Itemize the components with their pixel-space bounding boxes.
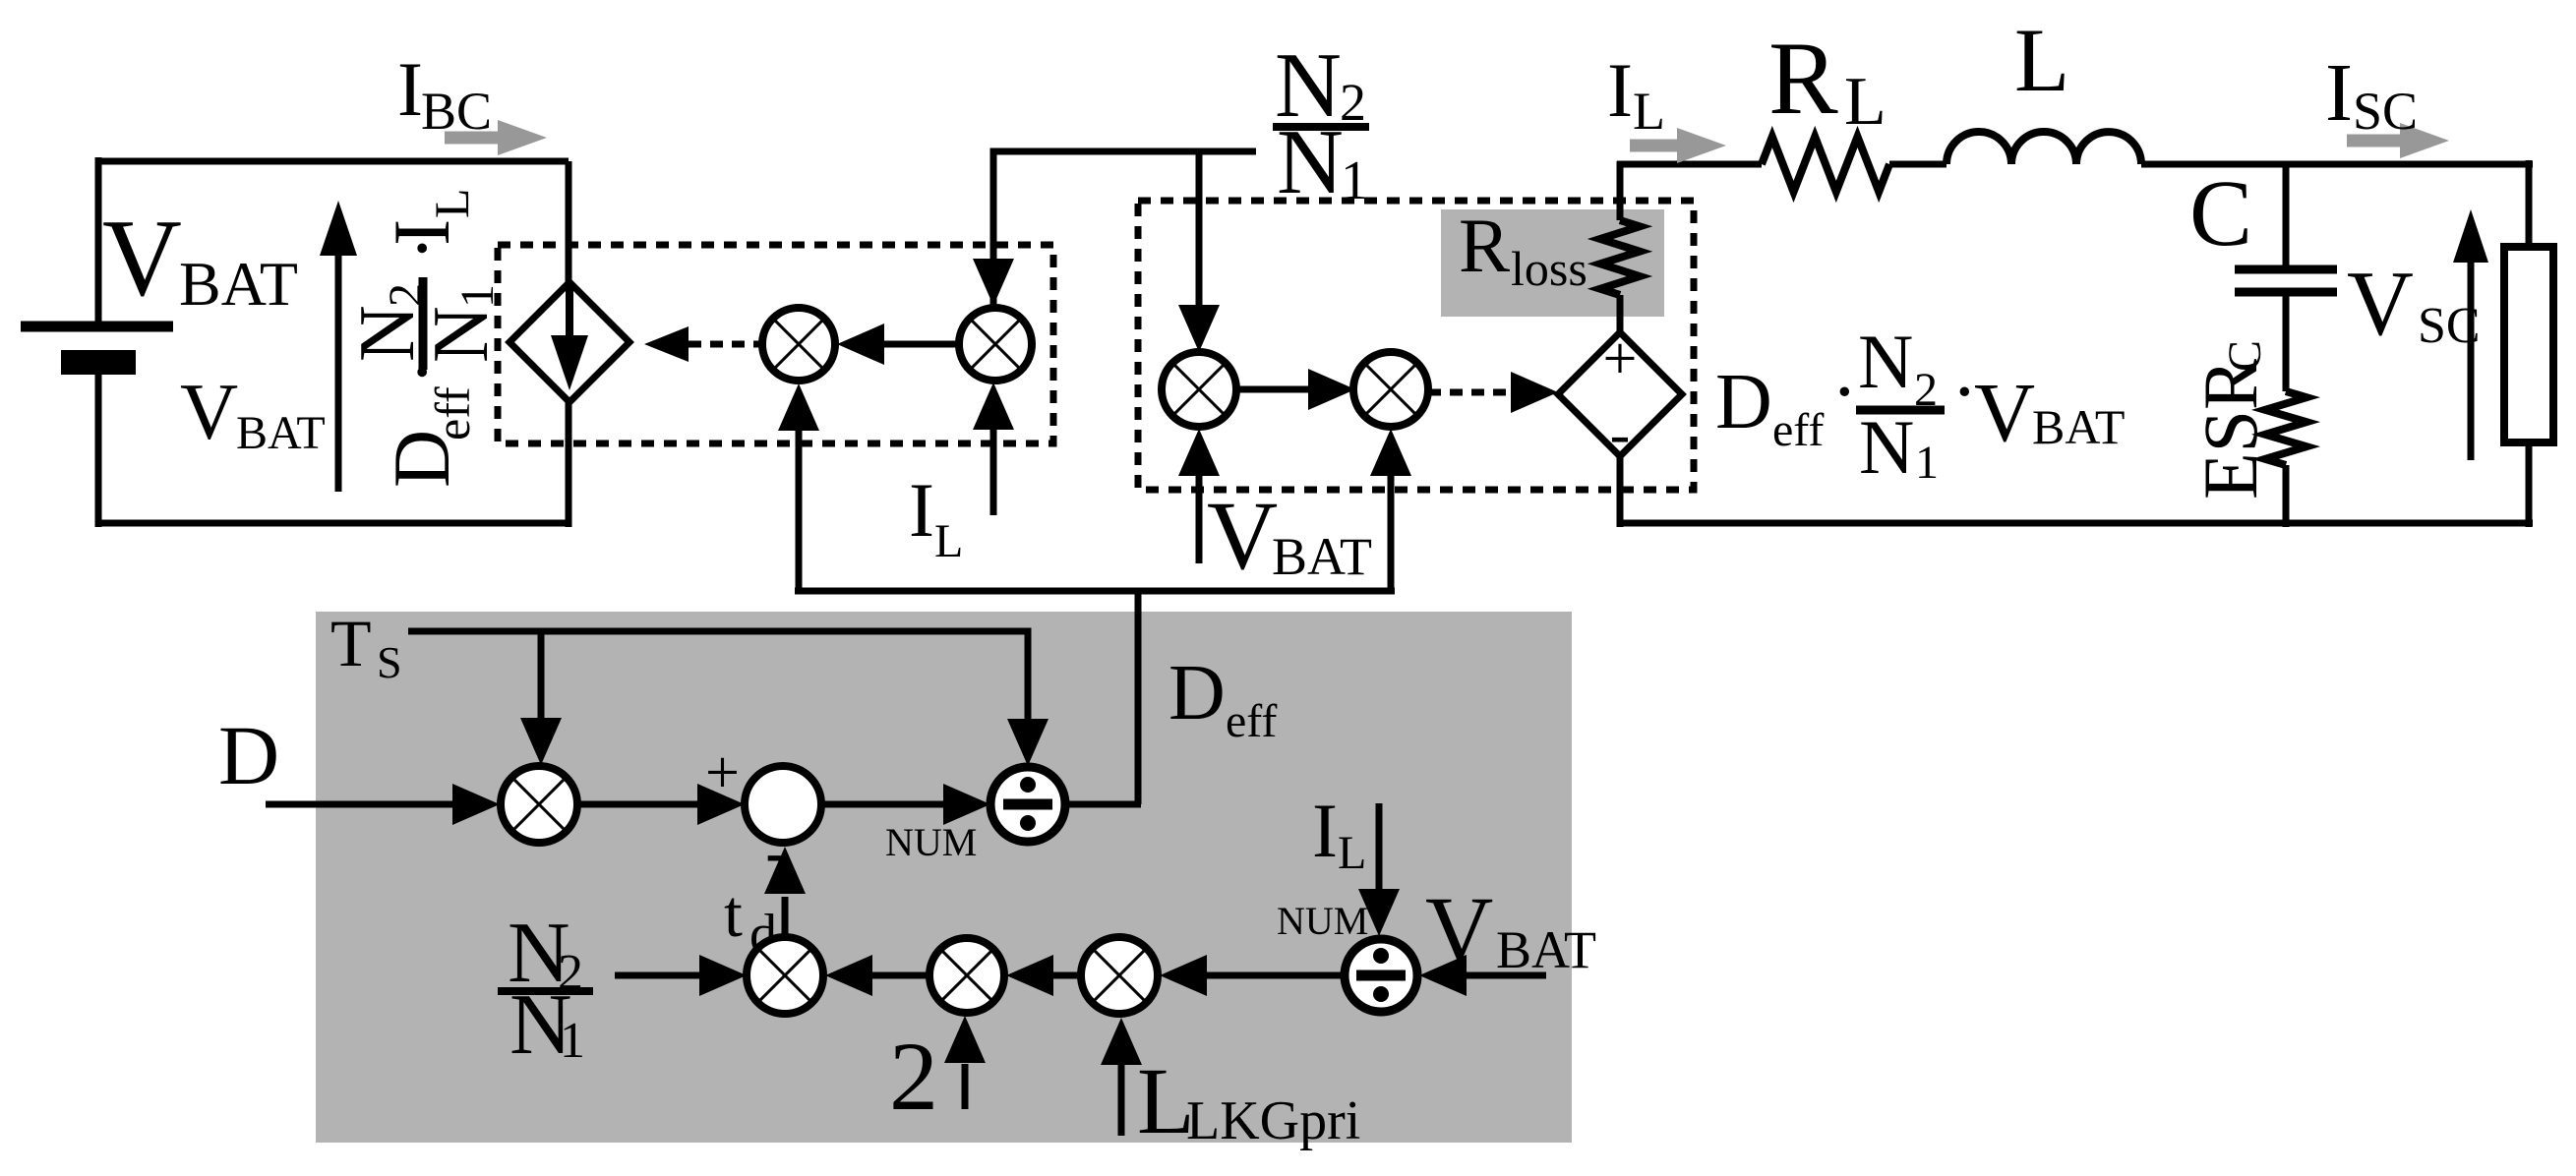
current arrow I_SC (gray) [2347, 123, 2449, 158]
svg-text:BAT: BAT [1272, 527, 1372, 586]
svg-text:BAT: BAT [1496, 920, 1596, 979]
multiplier (t_d producer) [747, 937, 823, 1014]
svg-text:LKGpri: LKGpri [1186, 1090, 1360, 1151]
svg-text:I: I [1312, 788, 1338, 873]
svg-text:ESR: ESR [2187, 359, 2273, 500]
wire battery loop top [98, 158, 569, 165]
wire capacitor to ESR [2283, 292, 2290, 391]
inductor L [1947, 132, 2141, 164]
multiplier (box1 right) [959, 308, 1032, 381]
svg-text:C: C [2219, 340, 2271, 372]
capacitor C plates [2235, 265, 2337, 274]
signal arrow multiplier-right to multiplier-left [882, 341, 961, 348]
svg-text:L: L [1338, 827, 1366, 879]
gray background panel (Deff computation block) [316, 612, 1572, 1143]
svg-text:D: D [1168, 650, 1226, 736]
svg-text:D: D [218, 708, 279, 802]
gray highlight behind R_loss label [1441, 209, 1664, 317]
signal arrow divider2 to mult H [1205, 972, 1345, 979]
svg-text:L: L [424, 188, 479, 218]
multiplier (x L_LKGpri) [1081, 937, 1158, 1014]
svg-text:1: 1 [1915, 437, 1939, 489]
svg-text:L: L [1844, 64, 1887, 140]
svg-text:S: S [377, 637, 402, 687]
battery V_BAT negative plate [61, 350, 136, 375]
svg-text:BAT: BAT [236, 407, 326, 459]
wire IL stub into box1 right multiplier [990, 430, 997, 515]
label Deff·N2/N1·IL (rotated annotation on current source) [344, 188, 505, 488]
wire battery loop right upper [566, 161, 572, 283]
svg-text:N: N [418, 306, 505, 363]
svg-text:1: 1 [560, 1013, 585, 1069]
dashed box (dependent voltage source model) [1138, 201, 1694, 490]
svg-text:eff: eff [425, 386, 480, 441]
wire right rail upper [2526, 160, 2533, 249]
svg-text:eff: eff [1226, 695, 1277, 747]
arrowhead N2/N1 into box1 multiplier [973, 259, 1014, 306]
dashed signal wire multiplier to voltage source [1428, 389, 1511, 396]
wire battery loop bottom [98, 520, 569, 527]
voltage arrow V_SC [2468, 260, 2475, 460]
svg-text:BAT: BAT [179, 249, 298, 319]
signal wire D input [266, 801, 454, 808]
svg-text:·: · [1831, 349, 1858, 436]
current arrow I_BC (gray) [445, 120, 547, 155]
svg-text:2: 2 [889, 1022, 938, 1131]
svg-text:t: t [724, 876, 743, 951]
svg-text:I: I [1607, 47, 1633, 133]
multiplier (box1 left) [762, 308, 835, 381]
svg-text:R: R [1768, 21, 1838, 136]
svg-text:V: V [2347, 253, 2414, 355]
wire Deff horizontal bus [795, 588, 1395, 595]
svg-text:+: + [1603, 325, 1638, 392]
wire between R_L and L [1889, 161, 1947, 168]
signal wire V_BAT into divider 2 [1465, 972, 1546, 979]
divider (Deff = NUM/T_S) [990, 767, 1065, 842]
svg-text:NUM: NUM [1277, 899, 1368, 943]
svg-text:L: L [934, 515, 963, 567]
signal arrow box2 left mult to right mult [1236, 386, 1308, 393]
current arrow I_L (gray) [1630, 128, 1726, 163]
svg-text:D: D [1715, 359, 1772, 445]
dependent voltage source diamond (Deff·N2/N1·V_BAT) [1558, 332, 1682, 456]
svg-text:I: I [909, 467, 934, 553]
svg-text:V: V [1207, 481, 1278, 590]
wire Deff input into box1 left multiplier [796, 431, 803, 591]
wire top rail left segment [1617, 161, 1762, 168]
wire top rail right segment [2141, 161, 2533, 168]
resistor R_loss [1617, 161, 1624, 220]
wire V_BAT stub into box2 left multiplier [1196, 476, 1203, 563]
svg-text:T: T [330, 606, 372, 680]
wire Deff branch into box2 right multiplier [1388, 476, 1395, 591]
voltage arrow V_BAT (loop) [335, 248, 342, 492]
signal wire 2 into multiplier G [962, 1064, 969, 1109]
svg-text:eff: eff [1772, 404, 1824, 456]
load resistance block (supercap) [2504, 247, 2553, 442]
multiplier (D x T_S) [501, 766, 577, 843]
svg-text:R: R [1459, 203, 1510, 288]
signal arrow mult H to mult G [1051, 972, 1081, 979]
wire right rail lower [2526, 441, 2533, 527]
svg-text:BAT: BAT [2032, 399, 2125, 454]
wire ESR to bottom rail [2283, 465, 2290, 527]
dashed signal wire multiplier to current source [689, 341, 765, 348]
svg-text:BC: BC [421, 82, 492, 141]
signal wire divider output to Deff riser [1065, 801, 1141, 808]
multiplier (x2) [929, 938, 1004, 1013]
wire voltage source to bottom rail [1617, 456, 1624, 527]
resistor R_L [1762, 137, 1889, 192]
signal wire N2/N1 into multiplier F [615, 972, 701, 979]
multiplier (box2 left) [1162, 352, 1236, 427]
svg-text:V: V [1974, 365, 2035, 459]
signal arrow mult G to mult F [870, 972, 929, 979]
wire battery loop right lower [566, 395, 572, 527]
wire capacitor branch upper [2283, 164, 2290, 269]
svg-text:V: V [102, 198, 182, 320]
svg-text:I: I [377, 219, 466, 246]
svg-text:I: I [397, 46, 423, 132]
svg-text:L: L [1633, 82, 1665, 141]
signal arrow to summer [577, 801, 699, 808]
battery V_BAT positive plate [21, 322, 173, 332]
svg-text:NUM: NUM [885, 820, 977, 864]
svg-text:+: + [705, 739, 740, 806]
signal branch T_S into multiplier E [538, 631, 545, 720]
wire battery loop left upper [95, 157, 102, 326]
divider (t_d denominator V_BAT) [1345, 939, 1417, 1012]
signal arrow summer to divider [821, 801, 945, 808]
arrowhead T_S into divider [1007, 719, 1048, 766]
svg-text:V: V [180, 367, 238, 456]
svg-text:I: I [2325, 47, 2353, 139]
wire Deff riser from divider output [1135, 591, 1142, 804]
multiplier (box2 right) [1353, 352, 1428, 427]
wire bottom rail [1620, 520, 2533, 527]
wire battery loop left lower [95, 370, 102, 527]
dependent current source diamond (Deff·N2/N1·IL) [509, 282, 629, 402]
svg-text:SC: SC [2353, 82, 2418, 141]
label ESR_C (rotated) [2187, 340, 2273, 500]
svg-text:L: L [2014, 10, 2069, 110]
wire N2/N1 branch into box2 left multiplier [1196, 151, 1203, 305]
svg-text:N: N [1859, 404, 1914, 490]
svg-text:loss: loss [1511, 241, 1588, 296]
svg-text:N: N [1858, 319, 1913, 404]
svg-text:C: C [2189, 160, 2252, 265]
dashed box (dependent current source model) [498, 245, 1053, 443]
svg-text:N: N [1277, 111, 1344, 213]
signal wire T_S [408, 631, 1028, 728]
signal wire L_LKGpri into multiplier H [1118, 1064, 1125, 1136]
wire N2/N1 ratio feed [993, 151, 1256, 308]
summing junction [745, 766, 821, 843]
resistor ESR_C [2265, 391, 2306, 465]
signal wire t_d into summer [782, 897, 789, 937]
signal wire I_L into divider 2 [1376, 803, 1383, 889]
